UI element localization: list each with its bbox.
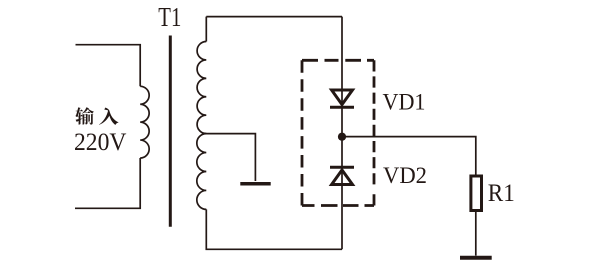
wire VD1/VD2 branch vertical <box>341 17 343 250</box>
wire secondary bottom lead <box>206 209 342 249</box>
wire output node to R1 <box>342 137 476 175</box>
svg-text:220V: 220V <box>74 127 127 156</box>
wire secondary top lead <box>206 16 342 18</box>
svg-text:T1: T1 <box>158 1 181 32</box>
ground (R1) <box>460 256 492 260</box>
svg-text:R1: R1 <box>488 180 515 207</box>
transformer T1 core <box>169 36 172 227</box>
transformer T1 primary winding <box>140 86 149 158</box>
ground (center tap) <box>240 182 270 186</box>
label 输入 <box>75 107 118 125</box>
wire center tap to ground <box>204 134 256 181</box>
resistor R1 <box>471 176 482 211</box>
node output junction dot <box>338 133 346 141</box>
wire primary bottom lead <box>75 158 140 208</box>
svg-text:VD2: VD2 <box>383 163 427 189</box>
dashed box around VD1 VD2 <box>302 60 374 205</box>
wire R1 to ground <box>475 211 477 256</box>
diode VD1 <box>330 90 354 107</box>
transformer T1 secondary winding lower half <box>197 134 206 210</box>
diode VD2 <box>330 167 354 184</box>
transformer T1 secondary winding upper half <box>197 42 206 134</box>
wire secondary top vertical <box>205 17 207 42</box>
wire primary top lead <box>76 45 141 87</box>
svg-text:VD1: VD1 <box>383 89 426 115</box>
